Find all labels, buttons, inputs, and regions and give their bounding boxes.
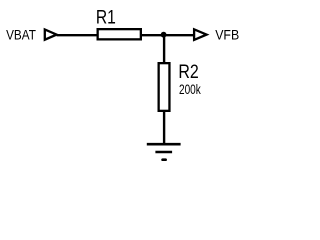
ground bar 1 <box>147 143 181 146</box>
resistor R1 <box>98 29 141 39</box>
wire R2 down to ground <box>163 110 165 144</box>
resistor R2 <box>159 63 170 111</box>
node junction dot <box>161 32 167 38</box>
port VFB output triangle <box>194 29 207 40</box>
svg-text:R2: R2 <box>178 62 198 83</box>
svg-text:VFB: VFB <box>215 26 239 42</box>
svg-text:VBAT: VBAT <box>6 26 36 42</box>
svg-text:200k: 200k <box>179 81 202 97</box>
svg-text:R1: R1 <box>96 8 116 29</box>
wire VBAT to R1 <box>57 34 98 36</box>
port VBAT input triangle <box>45 30 57 40</box>
wire node down to R2 <box>163 35 165 64</box>
ground bar 2 <box>155 151 172 154</box>
wire R1 to VFB port <box>142 34 195 36</box>
ground bar 3 <box>163 158 166 161</box>
